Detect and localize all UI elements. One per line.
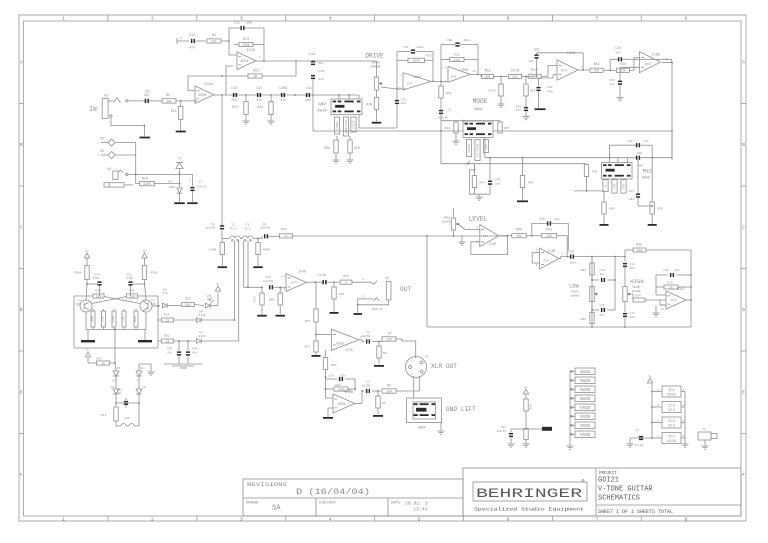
wire jack sleeve bbox=[357, 295, 389, 313]
svg-text:XLR OUT: XLR OUT bbox=[431, 363, 457, 370]
wire IC3B output bbox=[662, 58, 673, 63]
chassis bar bbox=[526, 427, 552, 431]
svg-text:10: 10 bbox=[397, 87, 401, 90]
wire VR3A wiper to IC4A bbox=[458, 224, 480, 230]
resistor R19 bbox=[482, 68, 494, 79]
svg-text:C43: C43 bbox=[495, 179, 501, 182]
wire T1 secondary b bbox=[238, 241, 240, 341]
switch S45 bbox=[116, 403, 139, 426]
ground R17A bbox=[497, 104, 504, 107]
svg-text:AMP: AMP bbox=[318, 103, 326, 108]
svg-text:4558: 4558 bbox=[667, 440, 676, 444]
svg-text:100kB: 100kB bbox=[370, 65, 380, 69]
svg-text:R18: R18 bbox=[446, 92, 452, 95]
ground C18 bbox=[535, 108, 546, 110]
project label bbox=[599, 472, 617, 476]
svg-text:SW4B: SW4B bbox=[580, 398, 591, 402]
capacitor C20 bbox=[636, 152, 644, 167]
wire IC4C out bbox=[686, 250, 692, 327]
svg-text:220u: 220u bbox=[463, 39, 470, 42]
ground C7 bbox=[187, 202, 198, 204]
op-amp IC4C bbox=[660, 288, 686, 311]
switch SW3A tags bbox=[603, 180, 626, 194]
resistor R33 bbox=[74, 290, 104, 299]
wire R17B R17C bbox=[522, 76, 534, 78]
svg-text:R12: R12 bbox=[185, 297, 191, 301]
svg-text:X3: X3 bbox=[104, 95, 108, 99]
resistor R30 bbox=[512, 228, 526, 238]
ground C39 bbox=[616, 97, 623, 100]
zener Y1 bbox=[176, 157, 183, 175]
svg-text:22k: 22k bbox=[512, 75, 518, 79]
svg-text:6: 6 bbox=[507, 16, 510, 22]
svg-text:G2: G2 bbox=[140, 367, 144, 370]
svg-text:C38: C38 bbox=[663, 269, 669, 272]
wire bus to R27 R36 bbox=[315, 282, 317, 309]
connector X1 bbox=[698, 428, 717, 446]
svg-text:20.01. 5: 20.01. 5 bbox=[405, 501, 428, 507]
diode X8a bbox=[111, 376, 119, 394]
opto X7a bbox=[112, 363, 120, 383]
resistor R37 bbox=[280, 228, 293, 238]
svg-text:A: A bbox=[742, 62, 745, 66]
svg-text:4n7: 4n7 bbox=[643, 140, 649, 143]
svg-text:T1: T1 bbox=[231, 224, 235, 227]
ground VR3A bbox=[458, 236, 465, 245]
svg-text:5: 5 bbox=[536, 250, 538, 253]
DRIVE label bbox=[365, 53, 384, 69]
svg-text:2n2: 2n2 bbox=[319, 78, 325, 81]
svg-text:X5: X5 bbox=[100, 137, 104, 141]
capacitor C16 feedback bbox=[529, 48, 584, 77]
wire jack to C6 bbox=[128, 100, 145, 102]
switch list stack bbox=[570, 368, 595, 446]
capacitor C36 bbox=[311, 70, 324, 81]
svg-text:V+: V+ bbox=[648, 375, 652, 378]
input tick X bbox=[177, 37, 182, 44]
capacitor C25 feedback bbox=[532, 217, 569, 250]
svg-text:10: 10 bbox=[660, 308, 664, 311]
svg-text:X8: X8 bbox=[143, 386, 147, 389]
svg-text:R50D: R50D bbox=[151, 272, 158, 275]
svg-text:562: 562 bbox=[185, 303, 191, 307]
ground bar C45 C44 bbox=[164, 364, 202, 368]
svg-text:C33: C33 bbox=[102, 316, 105, 321]
svg-text:100kB: 100kB bbox=[441, 220, 450, 224]
svg-text:R14: R14 bbox=[171, 109, 177, 113]
svg-text:33n: 33n bbox=[554, 218, 560, 221]
resistor R32 bbox=[397, 55, 433, 63]
wire D4 to bus bbox=[202, 319, 236, 321]
svg-text:R44: R44 bbox=[445, 127, 451, 130]
svg-text:22n: 22n bbox=[599, 314, 604, 317]
svg-text:220/16: 220/16 bbox=[497, 429, 507, 433]
svg-text:3: 3 bbox=[240, 516, 243, 522]
wire IC2B in bbox=[325, 388, 356, 398]
svg-text:1k: 1k bbox=[101, 361, 105, 365]
svg-text:6: 6 bbox=[180, 37, 182, 40]
ground R14 bbox=[176, 131, 186, 133]
svg-text:C42: C42 bbox=[309, 53, 315, 57]
svg-text:IC1: IC1 bbox=[668, 389, 674, 393]
svg-text:R1: R1 bbox=[212, 34, 216, 38]
wire mode bus right bbox=[493, 130, 673, 132]
svg-text:C45: C45 bbox=[167, 348, 172, 351]
svg-text:IC1A: IC1A bbox=[204, 83, 213, 87]
op-amp U1030b bbox=[442, 67, 470, 84]
svg-text:R50: R50 bbox=[331, 364, 337, 367]
svg-text:100k: 100k bbox=[242, 43, 250, 47]
svg-text:R4A: R4A bbox=[339, 293, 344, 296]
svg-text:C9: C9 bbox=[211, 223, 215, 226]
svg-text:R24: R24 bbox=[257, 105, 263, 109]
supply V+ right bbox=[142, 250, 147, 258]
resistor R1 bbox=[207, 34, 221, 43]
svg-text:IC3A: IC3A bbox=[567, 52, 576, 56]
ground D1 bbox=[174, 202, 185, 204]
svg-text:VR2B: VR2B bbox=[580, 416, 591, 420]
svg-text:7: 7 bbox=[562, 253, 564, 256]
svg-text:SW2B: SW2B bbox=[580, 380, 591, 384]
pin label 47 65 bbox=[318, 273, 327, 277]
capacitor C26 bbox=[326, 375, 356, 390]
svg-text:3: 3 bbox=[240, 16, 243, 22]
wire IC2A out bbox=[359, 340, 364, 342]
resistor P53 bbox=[101, 403, 119, 426]
svg-text:R48: R48 bbox=[528, 182, 534, 185]
wire C1 to mode row bbox=[440, 114, 442, 121]
svg-text:10n: 10n bbox=[319, 62, 325, 65]
capacitor C10 bbox=[244, 276, 286, 290]
resistor R48b bbox=[269, 287, 282, 314]
switch SW1A block bbox=[331, 99, 362, 115]
resistor R42 bbox=[590, 62, 603, 73]
grid row letters bbox=[20, 62, 745, 479]
svg-text:CALIF: CALIF bbox=[353, 120, 356, 129]
ground R47 bbox=[475, 194, 482, 200]
svg-text:8: 8 bbox=[684, 516, 687, 522]
svg-text:2: 2 bbox=[151, 16, 154, 22]
date cell bbox=[391, 501, 428, 513]
potentiometer VR1A bbox=[374, 61, 382, 97]
svg-text:VR3B: VR3B bbox=[580, 425, 591, 429]
behringer logo box bbox=[473, 482, 587, 501]
switch SW2A tags bbox=[466, 140, 488, 161]
svg-text:R33: R33 bbox=[95, 290, 101, 293]
svg-text:10n: 10n bbox=[529, 60, 535, 63]
resistor P50B bbox=[91, 309, 95, 330]
svg-text:GDI21: GDI21 bbox=[598, 477, 619, 485]
ground IC stack bbox=[681, 444, 688, 447]
IN label bbox=[89, 106, 97, 113]
svg-text:C17: C17 bbox=[630, 312, 636, 315]
wire D3 to bus bbox=[202, 340, 239, 342]
svg-text:7k:2: 7k:2 bbox=[244, 226, 251, 230]
svg-text:47n: 47n bbox=[189, 46, 195, 50]
svg-text:E: E bbox=[20, 392, 23, 396]
svg-text:33n: 33n bbox=[340, 375, 346, 378]
svg-text:4: 4 bbox=[683, 388, 685, 391]
resistor R23 bbox=[232, 95, 248, 121]
sheet text bbox=[598, 509, 673, 515]
svg-text:C21: C21 bbox=[256, 87, 262, 91]
GND LIFT label bbox=[446, 406, 476, 413]
svg-text:C36: C36 bbox=[319, 70, 325, 73]
resistor R29a bbox=[348, 136, 360, 160]
svg-text:MIC: MIC bbox=[643, 169, 652, 175]
HIGH label bbox=[630, 278, 643, 293]
grid column numbers bottom bbox=[62, 516, 687, 522]
svg-text:V+: V+ bbox=[85, 250, 89, 253]
OUT label bbox=[400, 286, 411, 293]
capacitor C31a bbox=[397, 46, 433, 54]
capacitor C45 bbox=[167, 340, 181, 364]
supply V+ left bbox=[84, 250, 89, 258]
svg-text:R36: R36 bbox=[324, 146, 330, 150]
resistor R18 bbox=[439, 81, 452, 98]
svg-text:2: 2 bbox=[362, 278, 364, 281]
resistor R47 bbox=[469, 161, 490, 195]
transformer T2 bbox=[243, 224, 254, 242]
wire VR2B wiper to R34 bbox=[631, 294, 633, 300]
op-amp IC2A bbox=[331, 329, 362, 352]
capacitor C19 bbox=[591, 269, 615, 282]
svg-text:SW1B: SW1B bbox=[580, 371, 591, 375]
resistor R39 bbox=[650, 202, 663, 224]
svg-text:1k: 1k bbox=[284, 234, 288, 238]
svg-text:2u2/50: 2u2/50 bbox=[205, 226, 215, 230]
wire T3 supply bbox=[145, 284, 147, 300]
wire caps row bbox=[231, 94, 324, 96]
capacitor C17 bbox=[623, 312, 635, 327]
svg-text:074: 074 bbox=[291, 282, 297, 285]
wire tick to C12 bbox=[177, 40, 189, 42]
diode D9 bbox=[162, 289, 167, 308]
svg-text:2: 2 bbox=[411, 360, 413, 363]
svg-text:1k: 1k bbox=[344, 281, 348, 285]
op-amp IC2B bbox=[333, 389, 355, 413]
svg-text:22n: 22n bbox=[401, 102, 407, 105]
svg-text:22n: 22n bbox=[280, 98, 286, 102]
ground K45B bbox=[218, 266, 228, 268]
svg-text:+: + bbox=[97, 155, 99, 159]
resistor K45B bbox=[209, 239, 224, 267]
transistor T4 bbox=[76, 300, 92, 313]
wire R46 to IC3B bbox=[630, 58, 640, 71]
svg-text:C28: C28 bbox=[568, 250, 574, 254]
svg-text:2P: 2P bbox=[117, 367, 121, 370]
resistor R34 bbox=[633, 295, 666, 306]
resistor R25 bbox=[326, 384, 356, 392]
wire stage1 out bbox=[431, 81, 448, 83]
svg-text:R34: R34 bbox=[635, 295, 641, 298]
svg-text:4558: 4558 bbox=[336, 342, 344, 346]
connector X5 bbox=[97, 137, 115, 147]
svg-text:2u2/50: 2u2/50 bbox=[263, 279, 273, 283]
resistor R24 bbox=[257, 95, 273, 121]
capacitor C27 bbox=[629, 160, 653, 206]
connector X4 bbox=[107, 168, 128, 180]
svg-text:225/16: 225/16 bbox=[197, 184, 208, 188]
wire box to R51 bbox=[158, 340, 161, 342]
svg-text:R2: R2 bbox=[166, 94, 170, 98]
wire to C7 bbox=[191, 174, 193, 186]
svg-text:10/50: 10/50 bbox=[362, 334, 371, 338]
svg-text:T2: T2 bbox=[246, 224, 250, 227]
svg-text:R55: R55 bbox=[96, 358, 102, 361]
supply V+ C4 cluster bbox=[523, 386, 528, 394]
svg-text:C41: C41 bbox=[306, 87, 312, 91]
resistor R31 bbox=[581, 258, 595, 280]
svg-text:22n: 22n bbox=[599, 273, 604, 276]
svg-text:V+: V+ bbox=[143, 250, 147, 253]
wire foot row bbox=[115, 394, 140, 404]
svg-text:680R: 680R bbox=[413, 60, 420, 63]
svg-text:S45: S45 bbox=[124, 417, 130, 420]
resistor R45 bbox=[498, 121, 510, 133]
resistor R17B bbox=[509, 68, 522, 79]
svg-text:LOW: LOW bbox=[569, 283, 580, 290]
svg-text:VR2A: VR2A bbox=[571, 291, 578, 294]
resistor R2 bbox=[162, 94, 176, 103]
wire C1 row bbox=[441, 120, 500, 122]
resistor R31a bbox=[441, 45, 478, 82]
svg-text:2: 2 bbox=[151, 516, 154, 522]
diode D3 bbox=[197, 332, 206, 344]
capacitor C2 bbox=[362, 331, 382, 344]
svg-text:C20B: C20B bbox=[279, 87, 287, 91]
wire X7b hook bbox=[139, 364, 151, 372]
svg-text:14: 14 bbox=[472, 70, 476, 73]
resistor R45B bbox=[256, 238, 270, 266]
supply V+ foot bbox=[85, 349, 90, 357]
svg-text:2n2: 2n2 bbox=[615, 52, 621, 55]
svg-text:R23: R23 bbox=[232, 105, 238, 109]
svg-text:-: - bbox=[97, 142, 99, 146]
resistor R3A bbox=[127, 290, 159, 299]
wire box to R52 bbox=[158, 319, 161, 321]
capacitor C44 bbox=[186, 340, 198, 364]
wire mode bus upper bbox=[485, 131, 672, 159]
capacitor C47 bbox=[322, 280, 340, 284]
svg-text:1.6: 1.6 bbox=[442, 81, 447, 84]
svg-text:220u: 220u bbox=[416, 46, 423, 49]
svg-text:47/65: 47/65 bbox=[318, 273, 327, 277]
svg-text:4558: 4558 bbox=[337, 403, 345, 407]
ground R29a bbox=[346, 160, 353, 163]
capacitor C28 bbox=[568, 250, 592, 265]
svg-text:3: 3 bbox=[476, 226, 478, 229]
svg-text:C26: C26 bbox=[122, 316, 125, 321]
ground C4 bbox=[626, 438, 633, 447]
svg-text:R27: R27 bbox=[305, 346, 311, 349]
wire MIC to R39 bbox=[651, 158, 653, 207]
capacitor C31b bbox=[441, 39, 478, 47]
svg-text:4558: 4558 bbox=[198, 94, 206, 98]
op-amp IC4A bbox=[476, 225, 498, 247]
resistor R27 bbox=[305, 341, 319, 355]
svg-text:33n: 33n bbox=[674, 269, 680, 272]
svg-text:7k:2: 7k:2 bbox=[230, 226, 237, 230]
svg-text:C16: C16 bbox=[534, 48, 540, 52]
feedback loop C22 bbox=[229, 28, 264, 44]
svg-text:Specialized Studio Equipment: Specialized Studio Equipment bbox=[474, 507, 584, 513]
svg-text:C3: C3 bbox=[366, 381, 370, 384]
resistor R29b bbox=[656, 282, 692, 296]
svg-text:C25: C25 bbox=[539, 217, 545, 221]
svg-text:074: 074 bbox=[668, 409, 674, 413]
svg-text:100n: 100n bbox=[569, 261, 576, 264]
svg-text:430R: 430R bbox=[143, 182, 151, 186]
resistor R38 bbox=[584, 164, 597, 192]
svg-text:LEVEL: LEVEL bbox=[469, 216, 488, 223]
svg-text:3v0: 3v0 bbox=[162, 292, 167, 295]
wire IC4D out bbox=[307, 281, 323, 283]
connector X6 bbox=[97, 149, 115, 159]
supply V+ LD1 bbox=[211, 283, 221, 306]
wire IC2B out bbox=[355, 385, 364, 404]
capacitor C18 470u bbox=[536, 75, 557, 108]
capacitor C3 bbox=[362, 381, 381, 394]
svg-text:C10: C10 bbox=[265, 276, 271, 279]
wire R37 to level bbox=[292, 235, 508, 237]
wire R43 out bbox=[557, 236, 569, 258]
wire IC4A out bbox=[499, 235, 512, 237]
svg-text:HOT: HOT bbox=[485, 143, 488, 149]
jack type label bbox=[371, 308, 383, 311]
resistor R50D bbox=[142, 258, 157, 284]
resistor R10 bbox=[366, 98, 378, 122]
wire mid rail bbox=[614, 257, 616, 310]
wire tone rail left bbox=[591, 257, 593, 327]
ground R9 bbox=[374, 365, 384, 367]
svg-text:C: C bbox=[20, 227, 23, 231]
capacitor C14 bbox=[623, 257, 635, 286]
diode D4 bbox=[197, 311, 206, 323]
svg-text:R30: R30 bbox=[516, 228, 522, 232]
resistor P50C bbox=[134, 309, 138, 330]
svg-text:C22: C22 bbox=[234, 22, 240, 26]
svg-text:074: 074 bbox=[561, 69, 567, 73]
registered mark bbox=[582, 478, 585, 485]
svg-text:074: 074 bbox=[483, 235, 489, 238]
svg-text:X4: X4 bbox=[107, 168, 111, 172]
svg-text:DATE: DATE bbox=[391, 502, 401, 506]
svg-text:074: 074 bbox=[543, 260, 549, 263]
svg-text:100kB: 100kB bbox=[570, 294, 579, 298]
wire stage2 out bbox=[470, 60, 482, 77]
svg-text:1M: 1M bbox=[253, 74, 257, 78]
svg-text:C27: C27 bbox=[629, 190, 635, 193]
svg-text:7: 7 bbox=[596, 516, 599, 522]
svg-text:K45B: K45B bbox=[209, 249, 216, 252]
svg-text:R51: R51 bbox=[164, 335, 170, 338]
capacitor C20B bbox=[279, 87, 287, 102]
svg-text:R55: R55 bbox=[343, 275, 349, 278]
svg-text:4558: 4558 bbox=[240, 60, 248, 64]
svg-text:470u: 470u bbox=[547, 90, 554, 93]
svg-text:8: 8 bbox=[657, 435, 659, 438]
svg-text:C26: C26 bbox=[328, 375, 334, 378]
svg-text:SW2A: SW2A bbox=[474, 108, 483, 112]
svg-text:Y1: Y1 bbox=[178, 157, 182, 161]
wire R19 R17B bbox=[493, 76, 507, 78]
op-amp IC1A bbox=[195, 83, 214, 104]
resistor R44 bbox=[445, 121, 459, 141]
wire IC stack right rail bbox=[684, 392, 686, 445]
svg-text:C18: C18 bbox=[547, 86, 553, 89]
ground R46C bbox=[257, 315, 267, 317]
